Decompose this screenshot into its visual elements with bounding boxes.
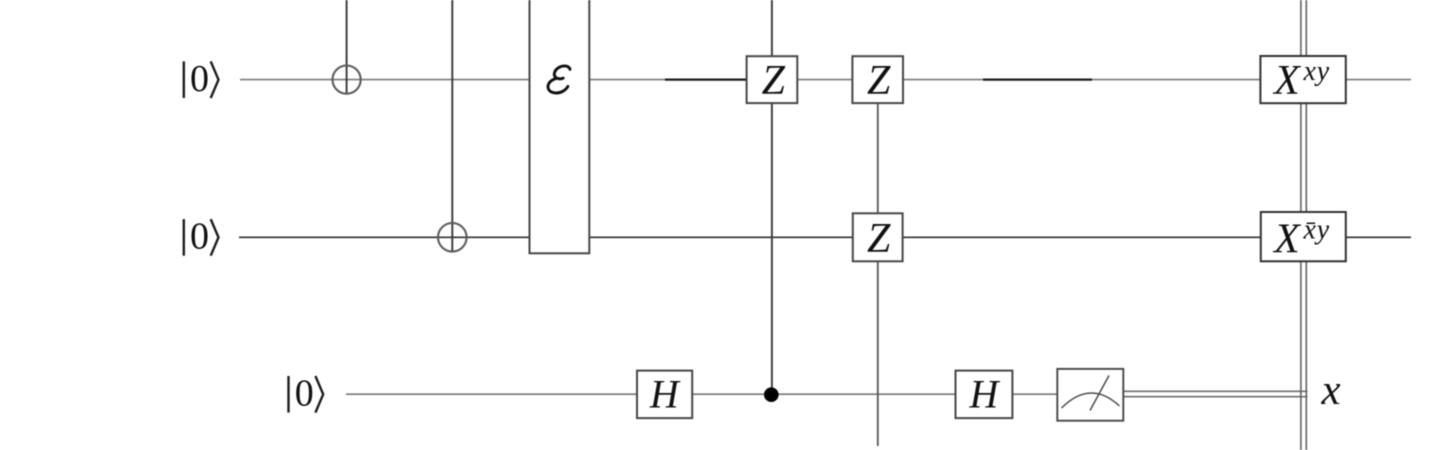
wire q0 dark segment 2	[983, 78, 1092, 80]
vertical wire Z-Z q0-q1	[877, 80, 879, 446]
classical double wire	[1123, 390, 1308, 392]
wire q1	[239, 236, 1411, 238]
svg-text:x: x	[1320, 367, 1340, 414]
classical double vertical wire	[1300, 0, 1302, 450]
svg-text:H: H	[649, 372, 681, 417]
gate H q2 (second)	[956, 371, 1013, 419]
ket |0> q1	[183, 219, 185, 256]
gate X^xy q0	[1260, 56, 1345, 103]
ket |0> q2	[287, 376, 289, 413]
gate Z q0 (first)	[747, 56, 798, 103]
vertical wire controlled-Z q0-q2	[771, 0, 773, 394]
svg-text:Z: Z	[867, 58, 891, 104]
svg-text:0: 0	[295, 373, 314, 415]
wire q2	[346, 393, 1090, 395]
svg-text:X: X	[1272, 58, 1302, 104]
vertical wire to CNOT target q0	[346, 0, 348, 93]
svg-text:0: 0	[190, 216, 209, 258]
CNOT target on q0	[333, 66, 361, 94]
svg-text:Z: Z	[867, 216, 891, 262]
ket |0> q0	[183, 61, 185, 98]
svg-text:xy: xy	[1303, 56, 1330, 87]
script E glyph	[548, 66, 570, 93]
svg-text:H: H	[969, 372, 1001, 417]
channel box E	[530, 0, 590, 253]
CNOT target on q1	[438, 223, 467, 252]
svg-text:x̄y: x̄y	[1303, 215, 1330, 246]
gate Z q0 (second)	[852, 56, 903, 103]
wire q0 dark segment 1	[665, 78, 748, 80]
svg-text:X: X	[1272, 216, 1302, 262]
wire q0	[240, 79, 1411, 81]
vertical wire to CNOT target q1	[451, 0, 453, 252]
svg-text:0: 0	[190, 58, 209, 100]
gate H q2 (first)	[637, 371, 692, 419]
svg-text:Z: Z	[762, 58, 786, 104]
gate X^xbar-y q1	[1261, 212, 1346, 261]
gate Z q1	[853, 213, 903, 261]
control dot q2	[764, 387, 779, 402]
measurement meter q2	[1057, 369, 1123, 421]
